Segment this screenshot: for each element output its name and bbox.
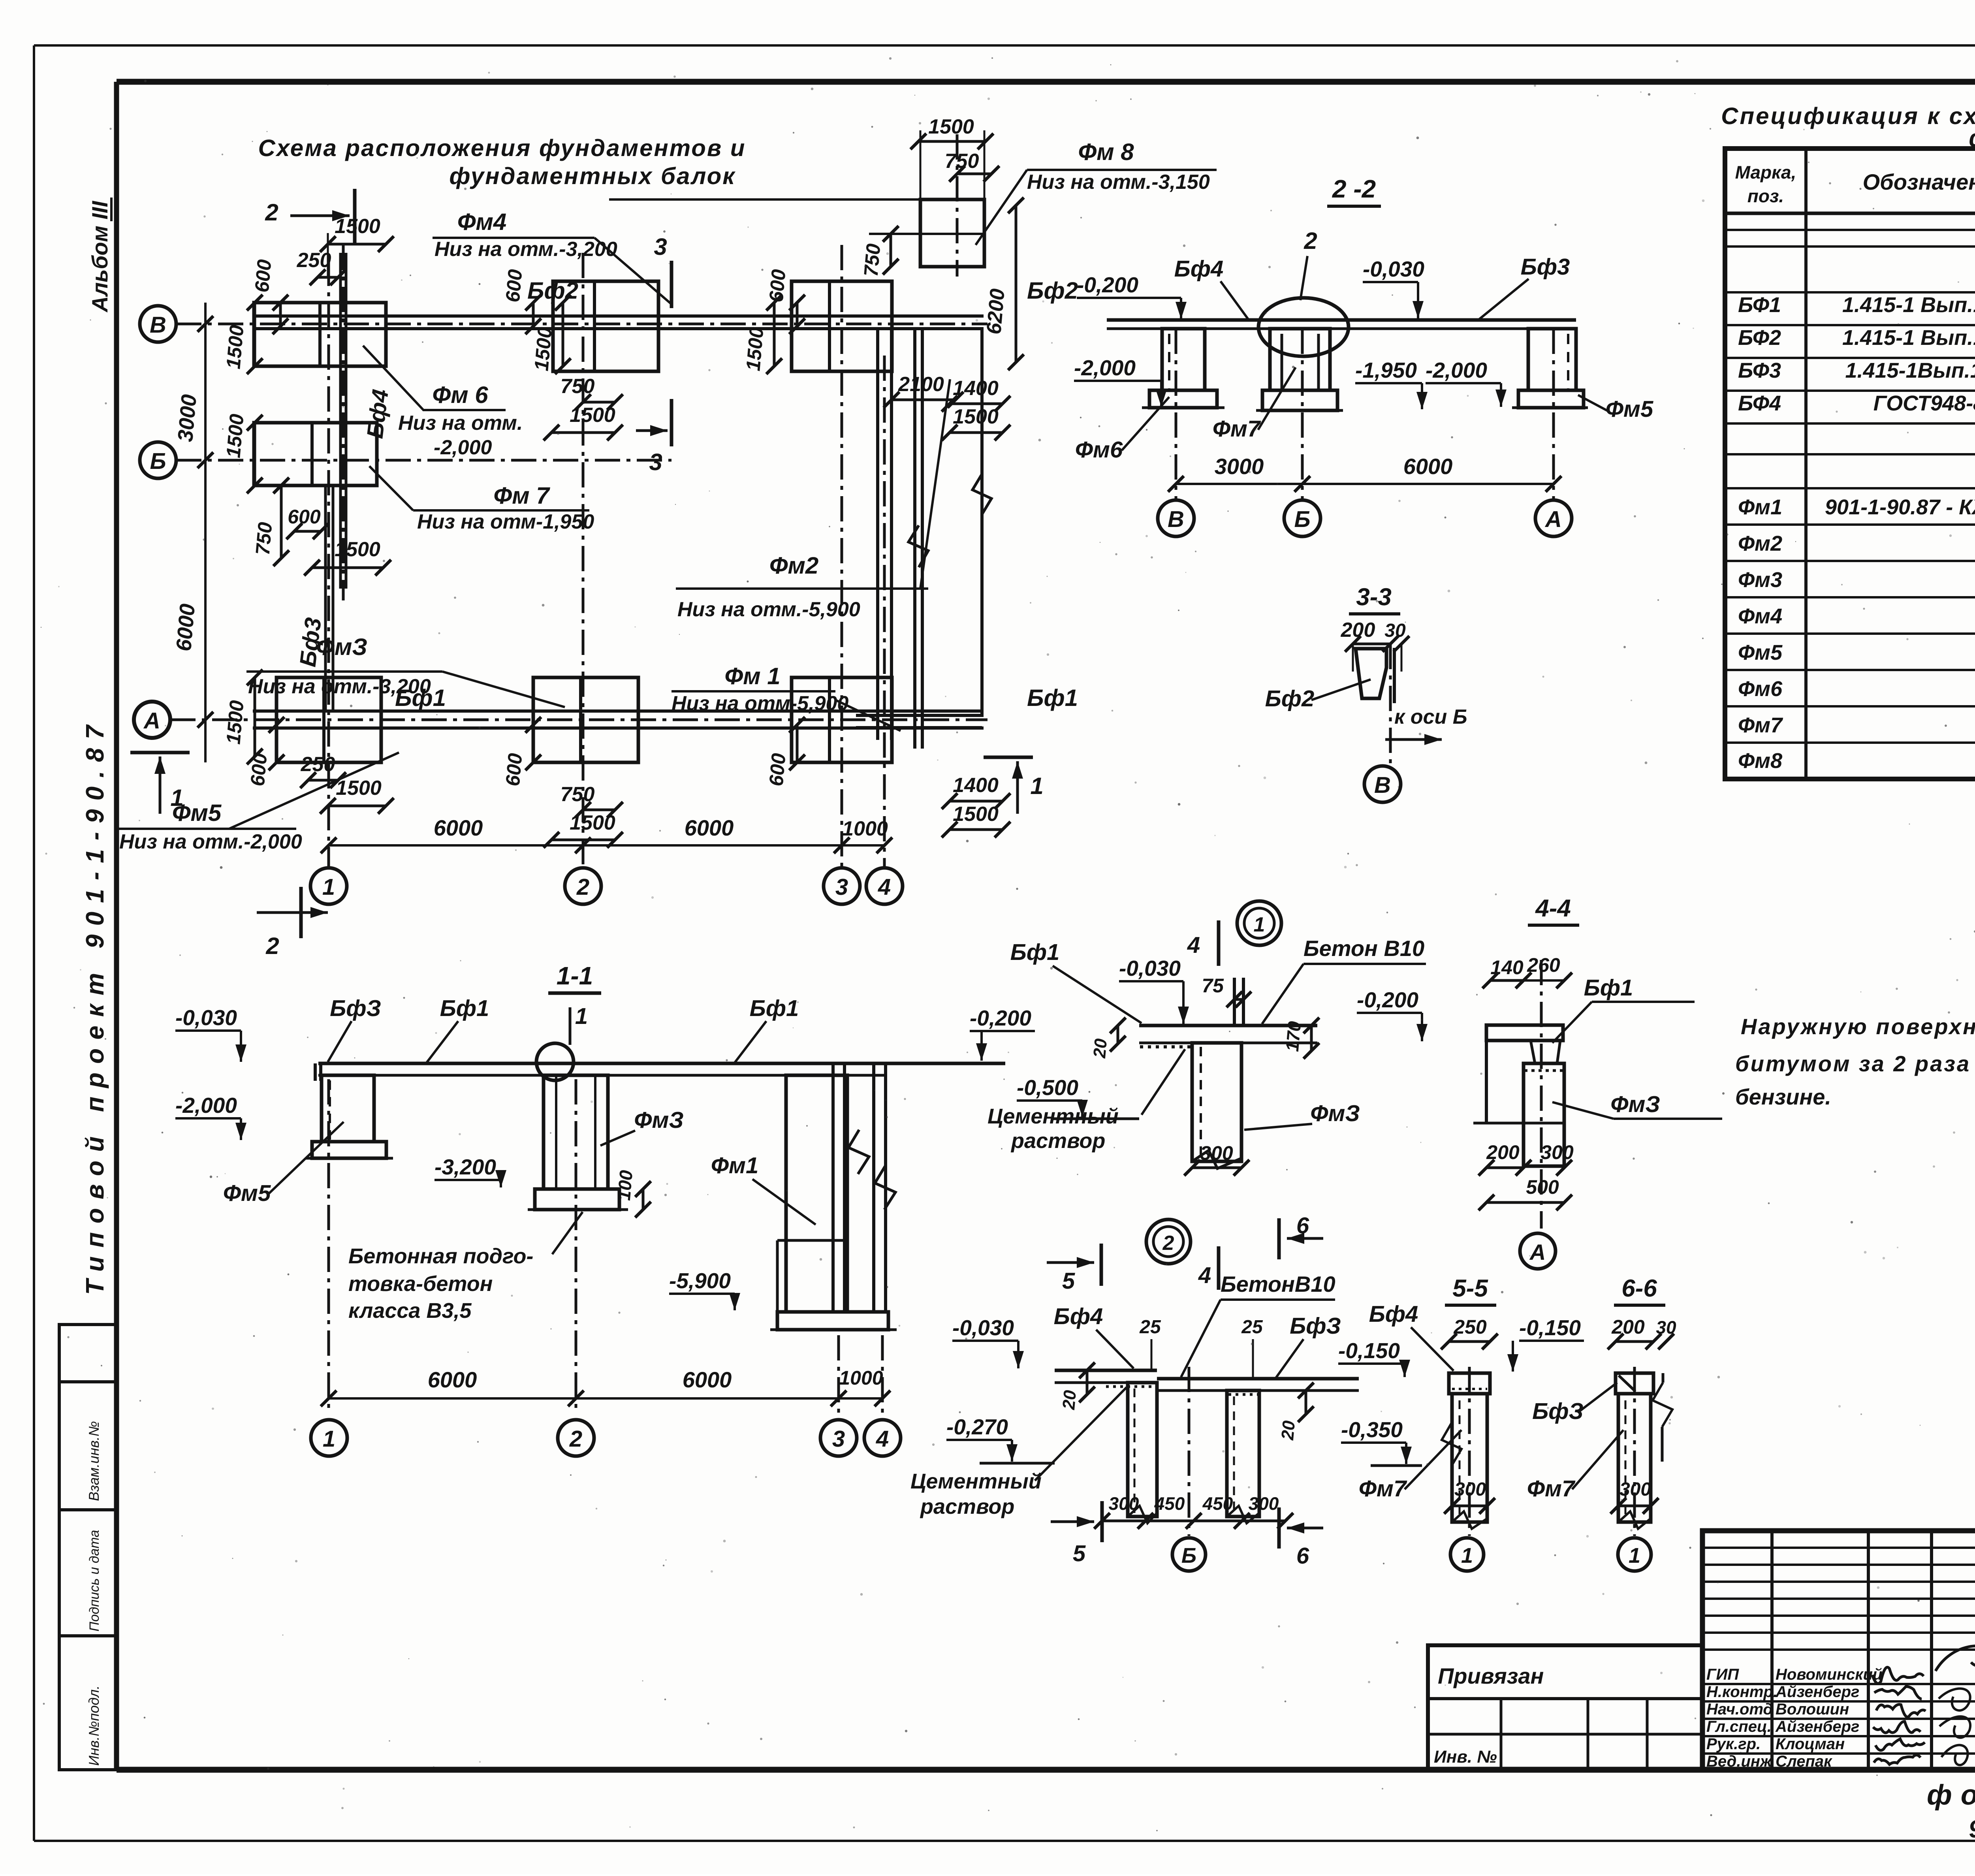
svg-text:1500: 1500	[928, 115, 974, 138]
svg-text:1: 1	[1254, 913, 1265, 936]
svg-text:1500: 1500	[222, 699, 248, 745]
svg-text:6200: 6200	[982, 288, 1009, 335]
svg-text:Фм4: Фм4	[457, 209, 507, 235]
svg-text:3000: 3000	[1215, 454, 1264, 479]
svg-text:Инв.№подл.: Инв.№подл.	[86, 1686, 102, 1766]
svg-text:6000: 6000	[434, 815, 483, 840]
svg-text:-0,030: -0,030	[952, 1315, 1014, 1340]
svg-text:Бф4: Бф4	[1369, 1301, 1418, 1327]
svg-text:750: 750	[252, 521, 276, 556]
svg-text:20: 20	[1278, 1420, 1299, 1441]
svg-text:Б: Б	[1181, 1544, 1196, 1567]
svg-text:Привязан: Привязан	[1438, 1663, 1544, 1688]
detail 2 mortar strips	[1106, 1385, 1155, 1388]
svg-text:3: 3	[832, 1426, 845, 1452]
svg-text:300: 300	[1540, 1141, 1574, 1163]
svg-text:-2,000: -2,000	[1074, 356, 1136, 380]
svg-text:5-5: 5-5	[1452, 1275, 1488, 1302]
svg-text:Клоцман: Клоцман	[1776, 1735, 1845, 1753]
svg-text:100: 100	[613, 1169, 637, 1201]
detail 1 Бф1 beam end	[1233, 978, 1236, 1025]
svg-text:500: 500	[1526, 1176, 1559, 1198]
svg-text:1500: 1500	[336, 777, 382, 800]
svg-text:6000: 6000	[1403, 454, 1453, 479]
svg-text:600: 600	[288, 506, 321, 528]
svg-text:750: 750	[860, 243, 885, 277]
svg-text:Низ на отм-1,950: Низ на отм-1,950	[417, 510, 594, 533]
section 1-1 floor beam line	[318, 1062, 887, 1065]
channel bottom beam	[856, 714, 982, 717]
svg-text:Рук.гр.: Рук.гр.	[1706, 1735, 1761, 1753]
section 1-1 axis 2	[575, 1079, 577, 1414]
svg-text:ФмЗ: ФмЗ	[1310, 1101, 1360, 1126]
svg-text:Фм 8: Фм 8	[1078, 139, 1134, 165]
svg-text:-0,200: -0,200	[1357, 988, 1418, 1012]
svg-text:Обозначение: Обозначение	[1863, 169, 1975, 194]
svg-text:6-6: 6-6	[1621, 1275, 1657, 1302]
svg-text:-0,030: -0,030	[175, 1005, 237, 1030]
svg-text:БфЗ: БфЗ	[1290, 1313, 1341, 1339]
section 1-1 axis bubble 3	[820, 1420, 857, 1456]
svg-text:3: 3	[654, 233, 667, 260]
svg-text:Типовой проект 901-1-90.87: Типовой проект 901-1-90.87	[81, 717, 109, 1295]
foundation Фм4 at В axis 3 plan	[792, 281, 892, 371]
svg-text:170: 170	[1282, 1020, 1305, 1052]
svg-text:Фм7: Фм7	[1738, 713, 1783, 737]
svg-text:600: 600	[502, 268, 527, 303]
svg-text:Бетон В10: Бетон В10	[1303, 936, 1424, 961]
detail 2 bubble	[1146, 1219, 1191, 1264]
outer sheet border	[34, 44, 1975, 47]
6-6 break mark right	[1653, 1383, 1672, 1427]
svg-text:Фм7: Фм7	[1359, 1476, 1407, 1502]
detail bubble 1 on 1-1	[536, 1043, 574, 1080]
svg-text:А: А	[1529, 1240, 1546, 1264]
axis bubble Б	[140, 442, 176, 478]
svg-text:450: 450	[1154, 1493, 1185, 1514]
svg-text:250: 250	[1453, 1316, 1487, 1338]
svg-text:-0,150: -0,150	[1519, 1315, 1581, 1340]
svg-text:Фм1: Фм1	[711, 1153, 758, 1178]
svg-text:4-4: 4-4	[1535, 895, 1571, 922]
beam Бф1 line along А	[253, 709, 984, 713]
5-5 axis bubble 1	[1450, 1538, 1484, 1571]
section mark 5 bottom	[1100, 1501, 1104, 1542]
svg-text:Слепак: Слепак	[1776, 1753, 1832, 1770]
detail 2 bottom dimensions 300 450 450 300	[1102, 1520, 1285, 1522]
beam Бф2 cross-section 3-3	[1356, 649, 1386, 698]
svg-text:1: 1	[1030, 773, 1043, 799]
svg-text:-2,000: -2,000	[1426, 358, 1487, 382]
section 2-2 axis В	[1175, 329, 1177, 500]
svg-text:2: 2	[1303, 228, 1317, 254]
svg-text:БфЗ: БфЗ	[330, 995, 381, 1021]
svg-text:300: 300	[1619, 1479, 1651, 1500]
svg-text:класса В3,5: класса В3,5	[348, 1299, 472, 1323]
title block upper row lines	[1702, 1547, 1975, 1549]
svg-text:1500: 1500	[335, 538, 380, 561]
svg-text:Фм5: Фм5	[1606, 396, 1653, 422]
svg-text:В: В	[1168, 506, 1184, 532]
svg-text:600: 600	[765, 752, 790, 787]
svg-text:БетонВ10: БетонВ10	[1221, 1272, 1335, 1296]
svg-text:600: 600	[502, 752, 527, 787]
svg-text:3-3: 3-3	[1356, 583, 1392, 611]
detail 2 axis bubble Б	[1172, 1538, 1206, 1571]
svg-text:В: В	[150, 312, 166, 338]
section 2-2 axis Б	[1301, 329, 1304, 500]
svg-text:бензине.: бензине.	[1735, 1084, 1831, 1109]
plan bottom dimension chain	[329, 844, 886, 847]
svg-text:Фм 1: Фм 1	[724, 663, 780, 689]
section 2-2 axis А	[1552, 329, 1555, 500]
section 2-2 beam line	[1107, 318, 1576, 322]
detail 2 axis	[1188, 1367, 1191, 1536]
svg-text:Бф2: Бф2	[1027, 277, 1078, 304]
svg-text:1000: 1000	[839, 1367, 883, 1389]
4-4 axis bubble А	[1520, 1233, 1556, 1269]
section 1-1 axis 1	[327, 1079, 330, 1414]
svg-text:битумом за 2 раза по огрун: битумом за 2 раза по огрунтовке растворо…	[1735, 1051, 1975, 1076]
svg-text:БФ2: БФ2	[1738, 326, 1781, 350]
svg-text:Фм4: Фм4	[1738, 604, 1782, 628]
svg-text:Бф4: Бф4	[1054, 1304, 1103, 1329]
svg-text:300: 300	[1454, 1479, 1486, 1500]
svg-text:1: 1	[323, 1426, 335, 1452]
svg-text:Низ на отм.-3,200: Низ на отм.-3,200	[248, 675, 431, 698]
svg-text:Фм 7: Фм 7	[493, 482, 550, 509]
svg-text:фундаментных балок: фундаментных балок	[449, 163, 735, 189]
svg-text:А: А	[143, 708, 160, 734]
svg-text:Волошин: Волошин	[1776, 1701, 1849, 1718]
detail 1 bubble	[1237, 901, 1281, 945]
axis bubble А	[134, 702, 170, 738]
foundation Фм8 plan	[920, 199, 984, 267]
4-4 column	[1524, 1063, 1564, 1166]
svg-text:1000: 1000	[842, 817, 888, 840]
section 1-1 axis bubble 4	[864, 1420, 901, 1456]
svg-text:Б: Б	[150, 448, 166, 474]
section mark 1 bottom-right	[984, 756, 1033, 759]
break mark on channel right wall	[972, 474, 991, 514]
5-5 break mark left	[1442, 1422, 1461, 1466]
svg-text:600: 600	[246, 752, 271, 787]
svg-text:Инв. №: Инв. №	[1434, 1747, 1497, 1767]
5-5 beam cap	[1449, 1373, 1490, 1394]
specification table grid	[1725, 149, 1975, 779]
svg-text:1500: 1500	[953, 803, 999, 826]
svg-text:Фм3: Фм3	[1738, 568, 1782, 592]
section 2-2 foundation at А	[1528, 329, 1576, 390]
svg-text:6000: 6000	[428, 1367, 477, 1392]
plan axis line 1	[327, 261, 330, 868]
plan left dimension chain 3000 6000	[204, 303, 207, 762]
svg-text:-5,900: -5,900	[669, 1268, 731, 1293]
svg-text:ФмЗ: ФмЗ	[1610, 1091, 1660, 1117]
svg-text:Фм7: Фм7	[1213, 416, 1261, 442]
svg-text:Альбом III: Альбом III	[87, 200, 112, 313]
svg-text:9864: 9864	[1968, 1813, 1975, 1843]
svg-text:ФмЗ: ФмЗ	[316, 634, 367, 660]
svg-text:20: 20	[1059, 1389, 1080, 1411]
break mark on channel middle wall	[908, 525, 928, 567]
svg-text:Айзенберг: Айзенберг	[1775, 1683, 1859, 1701]
svg-text:4: 4	[876, 1426, 889, 1452]
svg-text:6: 6	[1296, 1543, 1309, 1569]
svg-text:1-1: 1-1	[557, 962, 593, 990]
svg-text:6000: 6000	[685, 815, 734, 840]
svg-text:1500: 1500	[953, 405, 999, 428]
title block large signature flourish	[1935, 1646, 1975, 1671]
svg-text:Фм5: Фм5	[1738, 641, 1783, 664]
svg-text:3: 3	[649, 449, 662, 475]
attachment block dividers	[1500, 1699, 1503, 1770]
svg-text:-2,000: -2,000	[175, 1093, 237, 1118]
svg-text:Вед.инж: Вед.инж	[1706, 1753, 1773, 1770]
section 2-2 axis bubble В	[1158, 500, 1194, 536]
svg-text:Низ на отм.-3,150: Низ на отм.-3,150	[1027, 171, 1210, 194]
plan axis line 2	[582, 253, 585, 868]
svg-text:1.415-1Вып.1л.45: 1.415-1Вып.1л.45	[1845, 359, 1975, 382]
svg-text:20: 20	[1090, 1038, 1111, 1059]
foundation Фм6 plan	[254, 303, 386, 366]
6-6 column	[1618, 1394, 1651, 1522]
svg-text:1.415-1 Вып.1л.19: 1.415-1 Вып.1л.19	[1842, 293, 1975, 317]
svg-text:-0,150: -0,150	[1338, 1338, 1400, 1363]
svg-text:-0,500: -0,500	[1017, 1075, 1078, 1100]
plan axis line 3	[841, 245, 843, 868]
section 3-3 axis	[1389, 644, 1392, 766]
svg-text:300: 300	[1109, 1493, 1139, 1514]
svg-text:БФ3: БФ3	[1738, 359, 1781, 382]
svg-text:1500: 1500	[222, 413, 248, 459]
svg-text:Схема расположения фундаментов: Схема расположения фундаментов и	[258, 135, 746, 161]
svg-text:1: 1	[322, 874, 335, 900]
svg-text:-0,350: -0,350	[1341, 1417, 1403, 1442]
foundation Фм3 on 1-1	[544, 1075, 608, 1189]
6-6 beam cap	[1616, 1373, 1653, 1394]
section mark 4 bottom	[1217, 1246, 1221, 1290]
detail 2 beams	[1055, 1369, 1157, 1372]
svg-text:формат А2: формат А2	[1927, 1779, 1975, 1811]
beam Бф3 vertical line	[324, 486, 327, 711]
axis bubble 3	[824, 868, 860, 904]
svg-text:2: 2	[569, 1426, 582, 1452]
section mark 1 bottom-left	[130, 751, 190, 755]
svg-text:-0,270: -0,270	[946, 1415, 1008, 1439]
svg-text:6000: 6000	[172, 603, 199, 652]
plan axis line 4	[883, 356, 886, 868]
svg-text:Фм 6: Фм 6	[432, 382, 488, 408]
4-4 beam seat taper	[1531, 1041, 1535, 1063]
svg-text:Фм1: Фм1	[1738, 495, 1782, 519]
svg-text:1400: 1400	[953, 774, 999, 797]
svg-text:Подпись и дата: Подпись и дата	[87, 1530, 102, 1631]
wire line to Фм8	[609, 198, 984, 201]
4-4 beam	[1486, 1025, 1563, 1041]
svg-text:200: 200	[1611, 1316, 1645, 1338]
section 1-1 axis 3	[837, 1335, 840, 1414]
svg-text:Марка,: Марка,	[1735, 162, 1796, 183]
svg-text:Бетонная подго-: Бетонная подго-	[348, 1244, 533, 1268]
svg-text:1500: 1500	[222, 324, 248, 370]
svg-text:Низ на отм.-5,900: Низ на отм.-5,900	[677, 598, 860, 621]
foundation Фм7 plan	[254, 423, 377, 485]
svg-text:1500: 1500	[530, 326, 556, 372]
svg-text:250: 250	[297, 249, 331, 272]
axis bubble 2	[565, 868, 601, 904]
svg-text:2: 2	[576, 874, 589, 900]
foundation Фм1 at А axis 3 plan	[792, 677, 892, 762]
svg-text:Н.контр.: Н.контр.	[1706, 1683, 1777, 1701]
svg-text:Фм5: Фм5	[223, 1180, 271, 1206]
svg-text:3: 3	[835, 874, 848, 900]
channel walls on 1-1	[831, 1063, 835, 1312]
section 2-2 foundation at Б	[1270, 329, 1330, 390]
svg-text:Цементный: Цементный	[987, 1105, 1119, 1128]
svg-text:Фм7: Фм7	[1527, 1476, 1576, 1502]
plan axis line Б	[176, 459, 671, 462]
svg-text:Фм8: Фм8	[1738, 749, 1782, 773]
title block signatures	[1872, 1667, 1924, 1683]
svg-text:ГОСТ948-84: ГОСТ948-84	[1873, 391, 1975, 415]
5-5 axis	[1468, 1367, 1471, 1536]
svg-text:200: 200	[1486, 1141, 1520, 1163]
svg-text:Гл.спец.: Гл.спец.	[1706, 1718, 1772, 1735]
svg-text:раствор: раствор	[1010, 1129, 1105, 1153]
svg-text:Взам.инв.№: Взам.инв.№	[86, 1421, 102, 1501]
section 2-2 foundation at В	[1162, 329, 1205, 390]
axis bubble 4	[866, 868, 903, 904]
6-6 axis bubble 1	[1618, 1538, 1651, 1571]
section 1-1 axis bubble 2	[558, 1420, 594, 1456]
svg-text:300: 300	[1200, 1142, 1233, 1164]
plan axis line А	[170, 719, 987, 721]
svg-text:товка-бетон: товка-бетон	[348, 1272, 493, 1296]
svg-text:1: 1	[1461, 1544, 1473, 1567]
foundation Фм1 on 1-1	[786, 1075, 847, 1312]
svg-text:В: В	[1374, 772, 1391, 798]
svg-text:Бф1: Бф1	[1584, 975, 1633, 1001]
svg-text:Фм2: Фм2	[769, 552, 819, 579]
svg-text:Фм2: Фм2	[1738, 532, 1782, 555]
svg-text:Бф2: Бф2	[1265, 686, 1315, 711]
svg-text:Новоминский: Новоминский	[1776, 1666, 1883, 1683]
svg-text:Бф3: Бф3	[1521, 254, 1570, 280]
axis bubble 1	[310, 868, 347, 904]
svg-text:ГИП: ГИП	[1706, 1666, 1739, 1683]
section mark 3 mid	[670, 399, 673, 446]
section mark 6 top	[1277, 1218, 1281, 1259]
foundation Фм5 on 1-1	[322, 1075, 374, 1142]
section mark 2 bottom	[257, 911, 328, 914]
svg-text:-1,950: -1,950	[1355, 358, 1417, 382]
6-6 axis	[1633, 1367, 1636, 1536]
svg-text:-0,030: -0,030	[1119, 956, 1181, 980]
section 1-1 Бф3 beam end left	[314, 1063, 317, 1081]
svg-text:Наружную поверхность фундаме: Наружную поверхность фундаментов обмазат…	[1741, 1014, 1975, 1039]
svg-text:Айзенберг: Айзенберг	[1775, 1718, 1859, 1735]
svg-text:Спецификация к схеме расположе: Спецификация к схеме расположения фундам…	[1721, 103, 1975, 129]
svg-text:75: 75	[1202, 975, 1224, 997]
svg-text:1500: 1500	[335, 215, 380, 238]
svg-text:1: 1	[575, 1003, 588, 1029]
svg-text:Бф1: Бф1	[440, 995, 489, 1021]
svg-text:раствор: раствор	[920, 1495, 1014, 1518]
axis bubble В	[140, 306, 176, 342]
svg-text:4: 4	[1187, 932, 1200, 958]
svg-text:Бф1: Бф1	[750, 995, 799, 1021]
svg-text:1.415-1 Вып.1л.48: 1.415-1 Вып.1л.48	[1842, 326, 1975, 350]
section 2-2 axis bubble А	[1535, 500, 1572, 536]
section mark 6 bottom	[1277, 1507, 1281, 1549]
foundation at В axis 2 plan	[553, 281, 658, 371]
svg-text:901-1-90.87 - КЖ7: 901-1-90.87 - КЖ7	[1825, 495, 1975, 519]
svg-text:-0,200: -0,200	[970, 1006, 1031, 1030]
svg-text:3000: 3000	[173, 393, 201, 443]
section 2-2 axis bubble Б	[1284, 500, 1320, 536]
svg-text:2: 2	[265, 933, 279, 959]
svg-text:4: 4	[878, 874, 891, 900]
svg-text:250: 250	[301, 753, 335, 776]
break mark on 1-1 channel	[848, 1130, 869, 1174]
svg-text:2: 2	[265, 199, 278, 226]
svg-text:1500: 1500	[570, 404, 615, 427]
svg-text:4: 4	[1198, 1263, 1211, 1288]
svg-text:5: 5	[1073, 1541, 1086, 1566]
svg-text:1500: 1500	[570, 811, 615, 834]
svg-text:БфЗ: БфЗ	[1532, 1398, 1584, 1424]
plan axis line В	[176, 323, 987, 326]
svg-text:2 -2: 2 -2	[1332, 175, 1376, 203]
svg-text:БФ4: БФ4	[1738, 391, 1781, 415]
4-4 axis	[1540, 960, 1543, 1229]
svg-text:25: 25	[1139, 1317, 1161, 1338]
foundation Фм3 at А axis 2 plan	[533, 677, 638, 762]
detail bubble 2 on section 2-2	[1258, 298, 1349, 356]
svg-text:-3,200: -3,200	[434, 1155, 496, 1179]
svg-text:1400: 1400	[953, 377, 999, 400]
beam Бф2 line along В	[253, 314, 984, 318]
svg-text:Низ на отм-5,900: Низ на отм-5,900	[671, 692, 848, 715]
svg-text:Низ на отм.: Низ на отм.	[398, 412, 523, 435]
section 1-1 dimension chain	[329, 1397, 882, 1400]
svg-text:1: 1	[1629, 1544, 1640, 1567]
svg-text:300: 300	[1249, 1493, 1279, 1514]
5-5 column	[1452, 1394, 1487, 1522]
foundation Фм5 at А axis 1 plan	[276, 677, 381, 762]
channel wall lines right	[876, 330, 879, 740]
svg-text:Бф1: Бф1	[1010, 939, 1060, 965]
svg-text:1500: 1500	[742, 326, 767, 372]
svg-text:Низ на отм.-3,200: Низ на отм.-3,200	[434, 238, 617, 261]
svg-text:5: 5	[1062, 1268, 1075, 1294]
beam Бф4 vertical line	[339, 253, 342, 589]
section 3-3 axis bubble В	[1364, 766, 1401, 802]
svg-text:Низ на отм.-2,000: Низ на отм.-2,000	[119, 830, 302, 853]
svg-text:Фм5: Фм5	[172, 800, 222, 826]
svg-text:Цементный: Цементный	[910, 1470, 1042, 1493]
detail 1 column	[1192, 1043, 1241, 1161]
svg-text:6: 6	[1296, 1213, 1309, 1238]
svg-text:600: 600	[251, 258, 276, 293]
svg-text:Фм6: Фм6	[1738, 677, 1783, 701]
svg-text:2: 2	[1162, 1232, 1174, 1255]
title block staff row lines	[1702, 1683, 1975, 1685]
svg-text:Бф1: Бф1	[1027, 685, 1078, 711]
attachment block frame	[1428, 1645, 1702, 1770]
title block frame	[1702, 1531, 1975, 1770]
